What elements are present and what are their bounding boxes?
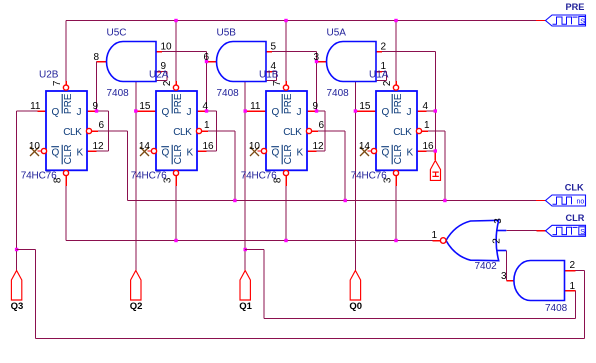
svg-text:PRE: PRE xyxy=(283,93,294,114)
junction U5B output stub xyxy=(205,60,208,63)
svg-text:Q: Q xyxy=(52,148,60,159)
svg-text:8: 8 xyxy=(53,177,64,183)
svg-text:2: 2 xyxy=(382,80,393,86)
U2A CLR bubble (pin 3) xyxy=(173,170,178,175)
junction CLR bus at U2A drop xyxy=(174,239,177,242)
JK flip-flop U1B (74HC76) xyxy=(266,91,307,170)
U2B CLR bubble (pin 8) xyxy=(63,170,68,175)
svg-text:1: 1 xyxy=(570,281,576,292)
U1B Qbar bubble (pin 10) xyxy=(258,148,267,153)
svg-text:3: 3 xyxy=(313,52,319,63)
wire PRE drop to U2B pin 7 xyxy=(65,21,67,86)
svg-text:2: 2 xyxy=(570,260,576,271)
svg-text:K: K xyxy=(407,148,414,159)
wire NOR top input to CLR connector xyxy=(506,230,545,232)
svg-text:5: 5 xyxy=(271,42,277,53)
svg-text:7408: 7408 xyxy=(217,88,240,99)
junction U1A Q node xyxy=(354,109,357,112)
U2B Qbar bubble (pin 10) xyxy=(38,148,47,153)
wire J-K tie of U1A (pins 4,16) xyxy=(417,111,435,151)
wire U1B Q (pin 11) to Q1 tag and gate input xyxy=(245,72,276,271)
svg-text:K: K xyxy=(297,148,304,159)
svg-text:8: 8 xyxy=(93,52,99,63)
svg-text:PRE: PRE xyxy=(63,93,74,114)
U2A Qbar bubble (pin 14) xyxy=(148,148,157,153)
U1B no-connect X on pin 10 xyxy=(250,147,259,156)
junction U5A output stub xyxy=(315,60,318,63)
svg-text:11: 11 xyxy=(250,101,261,112)
wire PRE bus (top horizontal) xyxy=(66,20,546,22)
svg-text:14: 14 xyxy=(359,141,371,152)
svg-text:S: S xyxy=(580,19,585,26)
svg-text:16: 16 xyxy=(423,141,435,152)
svg-text:Q0: Q0 xyxy=(349,301,362,312)
svg-text:J: J xyxy=(407,107,412,118)
svg-text:U5C: U5C xyxy=(107,28,127,39)
svg-text:12: 12 xyxy=(313,141,325,152)
wire CLR drop from U2B pin 8 xyxy=(65,176,67,241)
AND gate (7408, mirrored, bottom right) xyxy=(514,261,565,301)
svg-text:Q3: Q3 xyxy=(11,301,24,312)
NOR gate (7402, mirrored) xyxy=(446,220,499,260)
connector CLK (input tag) xyxy=(546,195,586,206)
output tag Q1 xyxy=(240,271,250,301)
wire J-K tie of U2B (pins 9,12) xyxy=(87,111,109,151)
svg-text:1: 1 xyxy=(204,120,210,131)
svg-text:3: 3 xyxy=(163,177,174,183)
junction U1A K xyxy=(434,149,437,152)
svg-text:J: J xyxy=(77,107,82,118)
output tag Q3 xyxy=(11,271,21,301)
wire Q3 branch to bottom AND input 2 xyxy=(17,250,585,339)
wire U2A Q (pin 15) to Q2 tag and gate input xyxy=(136,72,167,271)
junction Q1 branch xyxy=(244,248,247,251)
svg-text:8: 8 xyxy=(273,177,284,183)
wire U5B output 6 stub xyxy=(207,61,217,63)
logic-1 source (digital constant) at U1A K xyxy=(430,161,440,181)
svg-text:Q: Q xyxy=(162,107,170,118)
U1B CLK bubble (pin 6) xyxy=(306,128,311,133)
wire U5A input 2 to U1A J/K xyxy=(376,52,435,112)
svg-text:7: 7 xyxy=(272,80,283,86)
wire CLK of U1B pin 6 to CLK bus xyxy=(312,131,345,201)
wire PRE drop to U2A pin 2 xyxy=(175,21,177,86)
svg-text:J: J xyxy=(297,107,302,118)
svg-text:3: 3 xyxy=(383,177,394,183)
svg-text:CLK: CLK xyxy=(393,127,412,138)
AND gate U5B (7408, mirrored) xyxy=(217,42,266,82)
U1B CLR bubble (pin 8) xyxy=(283,170,288,175)
svg-text:Q: Q xyxy=(272,107,280,118)
JK flip-flop U1A (74HC76) xyxy=(376,91,417,170)
wire CLK of U2A pin 1 to CLK bus xyxy=(202,131,235,201)
wire U5B input 5 to U5A output net, down to U1B J/K xyxy=(266,52,317,112)
svg-text:CLR: CLR xyxy=(173,144,184,164)
U1A CLK bubble (pin 1) xyxy=(416,128,421,133)
junction U1B J xyxy=(315,109,318,112)
svg-text:15: 15 xyxy=(359,101,371,112)
U2A no-connect X on pin 14 xyxy=(140,147,149,156)
svg-text:Q: Q xyxy=(52,107,60,118)
svg-text:10: 10 xyxy=(161,42,173,53)
wire CLR bus (horizontal to NOR output) xyxy=(66,240,440,242)
svg-text:Q1: Q1 xyxy=(239,301,252,312)
AND gate U5C (7408, mirrored) xyxy=(107,42,157,82)
svg-text:9: 9 xyxy=(313,101,319,112)
svg-text:6: 6 xyxy=(99,120,105,131)
U1A PRE bubble (pin 2) xyxy=(393,85,398,90)
junction CLR bus at U1B drop xyxy=(284,239,287,242)
svg-text:2: 2 xyxy=(492,238,503,244)
svg-text:Q2: Q2 xyxy=(130,301,143,312)
wire CLR drop from U1B pin 8 xyxy=(285,176,287,241)
junction PRE bus at U1A drop xyxy=(394,19,397,22)
connector CLR (input tag) xyxy=(546,225,586,236)
U2A CLK bubble (pin 1) xyxy=(196,128,201,133)
svg-text:U1A: U1A xyxy=(369,70,389,81)
wire U1A Q (pin 15) to Q0 tag and gate input xyxy=(355,72,386,271)
svg-text:PRE: PRE xyxy=(393,93,404,114)
junction U1B Q node xyxy=(244,109,247,112)
svg-text:1: 1 xyxy=(431,230,437,241)
wire U5C output 8 to U2B J/K xyxy=(97,62,107,112)
svg-text:U5A: U5A xyxy=(327,28,347,39)
U1B PRE bubble (pin 7) xyxy=(283,85,288,90)
junction U2A Q node xyxy=(134,109,137,112)
svg-text:Q: Q xyxy=(382,107,390,118)
junction U2B J xyxy=(95,109,98,112)
wire CLK of U1A pin 1 to CLK bus xyxy=(422,131,445,201)
wire CLK bus (horizontal to CLK connector) xyxy=(127,200,545,202)
svg-text:10: 10 xyxy=(249,141,261,152)
wire CLK of U2B pin 6 to CLK bus xyxy=(92,131,127,201)
svg-text:CLR: CLR xyxy=(283,144,294,164)
output tag Q0 xyxy=(350,271,360,301)
svg-text:7408: 7408 xyxy=(545,303,568,314)
svg-text:6: 6 xyxy=(319,120,325,131)
junction CLK bus at U1A drop xyxy=(443,199,446,202)
svg-text:12: 12 xyxy=(93,141,105,152)
svg-text:CLR: CLR xyxy=(393,144,404,164)
AND gate U5A (7408, mirrored) xyxy=(327,42,376,82)
svg-text:CLK: CLK xyxy=(173,127,192,138)
svg-text:K: K xyxy=(77,148,84,159)
junction CLK bus at U1B drop xyxy=(344,199,347,202)
junction PRE bus at U2A drop xyxy=(174,19,177,22)
svg-text:U1B: U1B xyxy=(259,70,279,81)
junction CLR bus at U1A drop xyxy=(394,239,397,242)
svg-text:6: 6 xyxy=(203,52,209,63)
JK flip-flop U2B (74HC76) xyxy=(46,91,87,170)
svg-text:15: 15 xyxy=(139,101,151,112)
JK flip-flop U2A (74HC76) xyxy=(156,91,197,170)
wire J-K tie of U1B (pins 9,12) xyxy=(307,111,325,151)
svg-text:CLR: CLR xyxy=(63,144,74,164)
junction U1A J xyxy=(434,109,437,112)
svg-text:J: J xyxy=(187,107,192,118)
wire U5A output 3 stub xyxy=(317,61,327,63)
wire U2B Q (pin 11) to Q3 tag xyxy=(17,111,46,271)
wire J-K tie of U2A (pins 4,16) xyxy=(197,111,217,151)
connector PRE (input tag) xyxy=(546,15,586,26)
svg-text:no: no xyxy=(577,199,585,206)
svg-text:7408: 7408 xyxy=(327,88,350,99)
svg-text:Q: Q xyxy=(162,148,170,159)
svg-text:16: 16 xyxy=(203,141,215,152)
wire logic-1 source to U1A K (pin 16) xyxy=(434,151,436,160)
U2B CLK bubble (pin 6) xyxy=(86,128,91,133)
svg-text:3: 3 xyxy=(501,271,507,282)
svg-text:U2A: U2A xyxy=(149,70,169,81)
svg-text:CLK: CLK xyxy=(283,127,302,138)
svg-text:3: 3 xyxy=(493,218,504,224)
svg-text:4: 4 xyxy=(423,101,429,112)
wire PRE drop to U1A pin 2 xyxy=(395,21,397,86)
svg-text:2: 2 xyxy=(162,80,173,86)
junction Q3 branch xyxy=(15,248,18,251)
svg-text:10: 10 xyxy=(29,141,41,152)
NOR output bubble (pin 1) xyxy=(440,238,446,244)
wire Q1 branch to bottom AND input 1 xyxy=(245,250,575,319)
U1A CLR bubble (pin 3) xyxy=(393,170,398,175)
svg-text:CLR: CLR xyxy=(566,213,585,223)
svg-text:9: 9 xyxy=(93,101,99,112)
svg-text:Q: Q xyxy=(272,148,280,159)
svg-text:14: 14 xyxy=(139,141,151,152)
svg-text:7408: 7408 xyxy=(107,88,130,99)
svg-text:4: 4 xyxy=(203,101,209,112)
junction PRE bus at U1B drop xyxy=(284,19,287,22)
U1A Qbar bubble (pin 14) xyxy=(368,148,377,153)
svg-text:S: S xyxy=(580,229,585,236)
wire PRE drop to U1B pin 7 xyxy=(285,21,287,86)
U1A no-connect X on pin 14 xyxy=(360,147,369,156)
wire CLR drop from U1A pin 3 xyxy=(395,176,397,241)
svg-text:2: 2 xyxy=(381,42,387,53)
svg-text:K: K xyxy=(187,148,194,159)
svg-text:CLK: CLK xyxy=(63,127,82,138)
wire CLR drop from U2A pin 3 xyxy=(175,176,177,241)
junction CLK bus at U2A drop xyxy=(233,199,236,202)
svg-text:CLK: CLK xyxy=(565,182,584,192)
U2B no-connect X on pin 10 xyxy=(30,147,39,156)
junction U2A J xyxy=(205,109,208,112)
wire U5C input 10 to U5B output net, down to U2A J/K xyxy=(156,52,207,112)
wire NOR bottom input to bottom AND output 3 xyxy=(506,251,514,281)
svg-text:7: 7 xyxy=(52,80,63,86)
svg-text:7402: 7402 xyxy=(475,261,498,272)
svg-text:U5B: U5B xyxy=(217,28,237,39)
svg-text:11: 11 xyxy=(30,101,41,112)
svg-text:U2B: U2B xyxy=(39,70,59,81)
svg-text:PRE: PRE xyxy=(566,2,585,12)
svg-text:Q: Q xyxy=(382,148,390,159)
U2A PRE bubble (pin 2) xyxy=(173,85,178,90)
U2B PRE bubble (pin 7) xyxy=(63,85,68,90)
output tag Q2 xyxy=(131,271,141,301)
svg-text:1: 1 xyxy=(424,120,430,131)
svg-text:PRE: PRE xyxy=(173,93,184,114)
